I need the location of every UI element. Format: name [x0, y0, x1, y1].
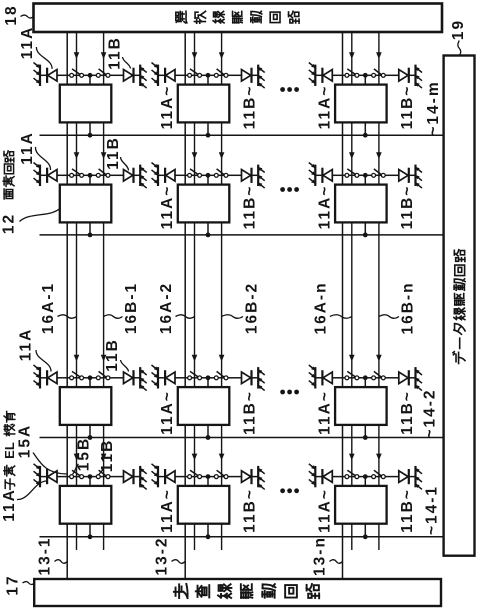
svg-text:11A~: 11A~	[316, 488, 333, 533]
svg-text:11A~: 11A~	[159, 85, 176, 130]
svg-text:11B~: 11B~	[399, 185, 416, 230]
label: 17 (scanning line drive circuit designator)	[5, 574, 35, 595]
label: 16B-1 (selection line designator)	[104, 282, 140, 334]
switch 15A contacts (row 2 col 1)	[70, 169, 84, 177]
data line 14-m (horizontal, to data line drive circuit)	[40, 133, 445, 138]
svg-text:16A-1: 16A-1	[40, 282, 57, 334]
wire: EL element row wire row 4 col 2	[158, 476, 258, 478]
node: junction dot (row 3 col 2)	[206, 375, 211, 380]
node: junction dot (row 1 col 1)	[88, 73, 93, 78]
label: 19 (data line drive circuit designator)	[450, 19, 467, 56]
switch 15B contacts (row 4 col n)	[372, 470, 386, 478]
svg-text:18: 18	[3, 4, 20, 25]
ellipsis dots row 2	[280, 187, 299, 192]
svg-text:11B~: 11B~	[399, 488, 416, 533]
selection line drive circuit box 18 (top)	[34, 4, 443, 33]
pixel circuit 12 box (row 2 col n)	[335, 185, 387, 223]
pixel circuit 12 box (row 3 col 1)	[60, 387, 112, 425]
wire: EL element row wire row 2 col 2	[158, 174, 258, 176]
switch 15A contacts (row 2 col n)	[345, 169, 359, 177]
wire: power supply line column 3 (x=342)	[342, 31, 344, 580]
data line drive circuit box 19 (right)	[444, 56, 475, 556]
organic EL element 11A (row 3 col 1)	[34, 365, 58, 389]
wire: pixel-to-scan-line connection col 1 row 2	[89, 175, 91, 235]
label: 11A (row 3) with leader	[18, 328, 52, 372]
svg-text:11B~: 11B~	[399, 390, 416, 435]
svg-text:~14-2: ~14-2	[422, 388, 439, 438]
svg-text:16A-n: 16A-n	[313, 281, 330, 334]
label: 11A 有機EL素子 (organic EL element) with leader	[1, 411, 47, 521]
switch 15B contacts (row 3 col 2)	[214, 371, 228, 379]
organic EL element 11B (row 2 col 1)	[124, 165, 147, 189]
wire: pixel-to-scan-line connection col 2 row 2	[207, 175, 209, 235]
selection line 16B-2 (vertical, with down arrows)	[219, 31, 225, 550]
switch 15A contacts (row 4 col 1)	[70, 470, 84, 478]
organic EL element 11A (row 2 col 1)	[34, 163, 58, 187]
label: 13-1 (scanning line designator)	[37, 536, 68, 575]
wire: EL element row wire row 4 col n	[315, 476, 415, 478]
wire: pixel-to-scan-line connection col 1 row 1	[89, 75, 91, 135]
node: junction dot (row 2 col 1)	[88, 173, 93, 178]
switch 15A contacts (row 3 col 2)	[188, 371, 202, 379]
wire: EL element row wire row 2 col n	[315, 174, 415, 176]
switch 15B contacts (row 4 col 1)	[96, 470, 110, 478]
svg-text:19: 19	[450, 19, 467, 40]
svg-text:11B~: 11B~	[242, 390, 259, 435]
wire: pixel-to-scan-line connection col 2 row 1	[207, 75, 209, 135]
label: データ線駆動回路 (data line drive circuit) text	[453, 250, 465, 364]
switch 15B contacts (row 2 col 2)	[214, 169, 228, 177]
wire: pixel-to-scan-line connection col 3 row 1	[364, 75, 366, 135]
node: junction dot (row 4 col n)	[363, 474, 368, 479]
data line 14-2 (horizontal, to data line drive circuit)	[40, 435, 445, 440]
label: 16B-n (selection line designator)	[379, 281, 417, 334]
switch 15B contacts (row 2 col n)	[372, 169, 386, 177]
node: junction dot (row 3 col n)	[363, 375, 368, 380]
wire: EL element row wire row 3 col n	[315, 377, 415, 379]
node: junction dot (row 2 col 2)	[206, 173, 211, 178]
node: junction dot (row 1 col 2)	[206, 73, 211, 78]
organic EL element 11B (row 3 col 1)	[124, 367, 147, 391]
organic EL element 11A (row 4 col 1)	[34, 464, 58, 488]
selection line 16A-n (vertical, with down arrows)	[349, 31, 355, 550]
svg-text:16B-2: 16B-2	[244, 282, 261, 334]
ellipsis dots row 3	[280, 390, 299, 395]
label: 16B-2 (selection line designator)	[222, 282, 261, 334]
label: 18 (selection line drive circuit designator)	[3, 4, 33, 25]
label: 13-2 (scanning line designator)	[154, 536, 186, 575]
pixel circuit 12 box (row 4 col 1)	[60, 486, 112, 524]
organic EL element 11B (row 4 col n)	[399, 466, 422, 490]
selection line 16A-1 (vertical, with down arrows)	[74, 31, 80, 550]
selection line 16B-n (vertical, with down arrows)	[376, 31, 382, 550]
svg-text:16B-1: 16B-1	[123, 282, 140, 334]
switch 15B contacts (row 1 col 2)	[214, 69, 228, 77]
pixel circuit 12 box (row 2 col 2)	[178, 185, 230, 223]
svg-text:11B~: 11B~	[242, 85, 259, 130]
label: 走査線駆動回路 (scanning line drive circuit) text	[174, 584, 319, 598]
wire: pixel-to-scan-line connection col 3 row 3	[364, 378, 366, 438]
organic EL element 11B (row 1 col n)	[399, 65, 422, 89]
organic EL element 11A (row 2 col n)	[309, 163, 333, 187]
organic EL element 11A (row 4 col 2)	[152, 464, 176, 488]
switch 15B contacts (row 1 col n)	[372, 69, 386, 77]
organic EL element 11B (row 4 col 1)	[124, 466, 147, 490]
svg-text:11B~: 11B~	[399, 85, 416, 130]
organic EL element 11A (row 2 col 2)	[152, 163, 176, 187]
label: 11B (row 2) with leader	[105, 136, 129, 170]
svg-text:EL: EL	[2, 442, 17, 459]
switch 15A contacts (row 3 col n)	[345, 371, 359, 379]
svg-text:13-2: 13-2	[154, 536, 171, 575]
switch 15A contacts (row 1 col n)	[345, 69, 359, 77]
switch 15B contacts (row 4 col 2)	[214, 470, 228, 478]
organic EL element 11B (row 2 col n)	[399, 165, 422, 189]
svg-text:12: 12	[1, 213, 18, 234]
node: junction dot (row 4 col 1)	[88, 474, 93, 479]
svg-text:16B-n: 16B-n	[400, 281, 417, 334]
wire: EL element row wire row 3 col 2	[158, 377, 258, 379]
svg-text:11B: 11B	[107, 36, 124, 70]
wire: EL element row wire row 3 col 1	[40, 377, 140, 379]
organic EL element 11A (row 1 col 2)	[152, 63, 176, 87]
ellipsis dots row 4	[280, 488, 299, 493]
switch 15B contacts (row 2 col 1)	[96, 169, 110, 177]
switch 15B contacts (row 3 col n)	[372, 371, 386, 379]
svg-text:11B~: 11B~	[242, 185, 259, 230]
pixel circuit 12 box (row 1 col n)	[335, 85, 387, 123]
switch 15B contacts (row 1 col 1)	[96, 69, 110, 77]
svg-text:11B: 11B	[104, 338, 121, 372]
wire: pixel-to-scan-line connection col 3 row 2	[364, 175, 366, 235]
label: 選択線駆動回路 (selection line drive circuit) text	[176, 11, 299, 23]
selection line 16A-2 (vertical, with down arrows)	[192, 31, 198, 550]
pixel circuit 12 box (row 1 col 1)	[60, 85, 112, 123]
pixel circuit 12 box (row 4 col 2)	[178, 486, 230, 524]
svg-text:15B: 15B	[76, 437, 93, 471]
organic EL element 11A (row 3 col 2)	[152, 365, 176, 389]
switch 15A contacts (row 4 col n)	[345, 470, 359, 478]
svg-text:11A~: 11A~	[316, 390, 333, 435]
svg-text:11B~: 11B~	[242, 488, 259, 533]
wire: pixel-to-scan-line connection col 1 row 3	[89, 378, 91, 438]
label: 15A (switch) with leader	[17, 424, 67, 474]
svg-text:11A~: 11A~	[159, 185, 176, 230]
organic EL element 11A (row 1 col 1)	[34, 63, 58, 87]
label: 11B (row 1) with leader	[107, 36, 131, 70]
svg-text:11A~: 11A~	[159, 390, 176, 435]
pixel circuit 12 box (row 2 col 1)	[60, 185, 112, 223]
pixel circuit 12 box (row 1 col 2)	[178, 85, 230, 123]
label: 11A (row 2) with leader	[19, 131, 51, 170]
organic EL element 11A (row 1 col n)	[309, 63, 333, 87]
svg-text:11A~: 11A~	[159, 488, 176, 533]
pixel circuit 12 box (row 4 col n)	[335, 486, 387, 524]
switch 15A contacts (row 1 col 2)	[188, 69, 202, 77]
organic EL element 11B (row 4 col 2)	[242, 466, 265, 490]
svg-text:11A~: 11A~	[316, 185, 333, 230]
wire: EL element row wire row 1 col 1	[40, 74, 140, 76]
label: 16A-n (selection line designator)	[313, 281, 352, 334]
svg-text:13-n: 13-n	[312, 536, 329, 576]
wire: EL element row wire row 1 col 2	[158, 74, 258, 76]
wire: EL element row wire row 1 col n	[315, 74, 415, 76]
wire: pixel-to-scan-line connection col 2 row 4	[207, 477, 209, 537]
svg-text:11A: 11A	[19, 131, 36, 165]
label: 16A-1 (selection line designator)	[40, 282, 77, 334]
organic EL element 11B (row 2 col 2)	[242, 165, 265, 189]
organic EL element 11A (row 4 col n)	[309, 464, 333, 488]
label: 11B (row 3) with leader	[104, 338, 129, 372]
organic EL element 11B (row 1 col 1)	[124, 65, 147, 89]
label: 15B (switch) with leader	[73, 437, 93, 474]
svg-text:16A-2: 16A-2	[158, 282, 175, 334]
svg-text:11B: 11B	[99, 439, 116, 473]
svg-text:~14-m: ~14-m	[425, 80, 442, 135]
svg-text:11A: 11A	[19, 26, 36, 60]
pixel circuit 12 box (row 3 col 2)	[178, 387, 230, 425]
wire: EL element row wire row 2 col 1	[40, 174, 140, 176]
svg-text:15A: 15A	[17, 424, 34, 458]
scanning line drive circuit box 17 (bottom)	[34, 579, 441, 606]
switch 15A contacts (row 3 col 1)	[70, 371, 84, 379]
wire: pixel-to-scan-line connection col 2 row 3	[207, 378, 209, 438]
switch 15A contacts (row 4 col 2)	[188, 470, 202, 478]
switch 15A contacts (row 2 col 2)	[188, 169, 202, 177]
wire: power supply line column 1 (x=67)	[66, 31, 68, 580]
svg-text:11B: 11B	[105, 136, 122, 170]
wire: pixel-to-scan-line connection col 1 row 4	[89, 477, 91, 537]
label: 13-n (scanning line designator)	[312, 536, 343, 576]
svg-text:11A: 11A	[18, 328, 35, 362]
wire: power supply line column 2 (x=185)	[184, 31, 186, 580]
organic EL element 11B (row 3 col n)	[399, 367, 422, 391]
organic EL element 11A (row 3 col n)	[309, 365, 333, 389]
svg-text:11A: 11A	[1, 488, 18, 522]
data line (row 2) (horizontal, to data line drive circuit)	[40, 233, 445, 238]
ellipsis dots row 1	[280, 87, 299, 92]
svg-text:~14-1: ~14-1	[424, 485, 441, 535]
label: 11A (row 1) with leader	[19, 26, 52, 69]
label: 16A-2 (selection line designator)	[158, 282, 195, 334]
svg-text:11A~: 11A~	[316, 85, 333, 130]
pixel circuit 12 box (row 3 col n)	[335, 387, 387, 425]
svg-text:17: 17	[5, 574, 22, 595]
label: 12 画素回路 (pixel circuit) with leader	[1, 151, 61, 234]
node: junction dot (row 3 col 1)	[88, 375, 93, 380]
node: junction dot (row 2 col n)	[363, 173, 368, 178]
wire: pixel-to-scan-line connection col 3 row 4	[364, 477, 366, 537]
svg-text:13-1: 13-1	[37, 536, 54, 575]
organic EL element 11B (row 3 col 2)	[242, 367, 265, 391]
node: junction dot (row 1 col n)	[363, 73, 368, 78]
label: 11B (row 4) with leader	[98, 439, 116, 475]
selection line 16B-1 (vertical, with down arrows)	[101, 31, 107, 550]
switch 15A contacts (row 1 col 1)	[70, 69, 84, 77]
node: junction dot (row 4 col 2)	[206, 474, 211, 479]
data line 14-1 (horizontal, to data line drive circuit)	[40, 534, 445, 539]
wire: EL element row wire row 4 col 1	[40, 476, 140, 478]
organic EL element 11B (row 1 col 2)	[242, 65, 265, 89]
switch 15B contacts (row 3 col 1)	[96, 371, 110, 379]
